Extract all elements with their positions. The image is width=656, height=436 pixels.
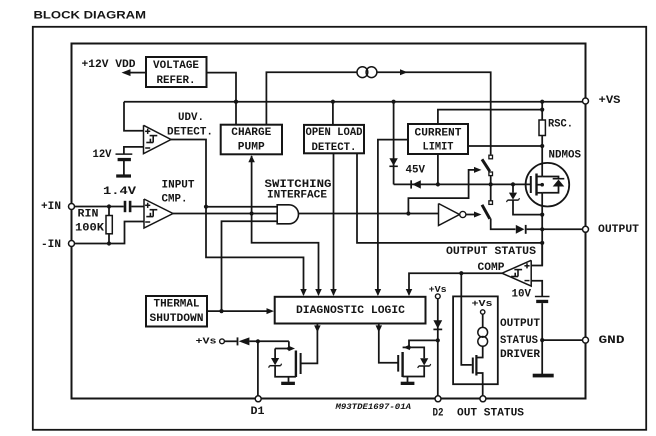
- svg-text:NDMOS: NDMOS: [549, 150, 582, 162]
- svg-text:VOLTAGE: VOLTAGE: [153, 60, 199, 72]
- svg-text:LIMIT: LIMIT: [423, 142, 455, 154]
- svg-text:D1: D1: [251, 406, 265, 418]
- svg-text:100K: 100K: [75, 223, 105, 235]
- svg-text:D2: D2: [433, 408, 444, 420]
- svg-text:CURRENT: CURRENT: [415, 128, 463, 140]
- svg-text:RSC.: RSC.: [548, 119, 573, 131]
- svg-text:OUTPUT: OUTPUT: [598, 224, 640, 236]
- svg-text:INTERFACE: INTERFACE: [267, 190, 327, 202]
- svg-text:CMP.: CMP.: [162, 194, 188, 206]
- svg-text:10V: 10V: [512, 288, 532, 300]
- svg-text:RIN: RIN: [78, 209, 99, 221]
- svg-text:+IN: +IN: [41, 201, 61, 213]
- svg-text:OUT STATUS: OUT STATUS: [457, 408, 525, 420]
- svg-text:+Vs: +Vs: [196, 336, 217, 347]
- svg-text:DETECT.: DETECT.: [312, 142, 357, 154]
- svg-text:M93TDE1697-01A: M93TDE1697-01A: [334, 403, 411, 412]
- svg-text:45V: 45V: [406, 164, 426, 176]
- svg-text:DRIVER: DRIVER: [500, 349, 541, 361]
- svg-text:OUTPUT STATUS: OUTPUT STATUS: [446, 246, 537, 258]
- svg-text:INPUT: INPUT: [162, 180, 196, 192]
- svg-text:+12V VDD: +12V VDD: [82, 59, 136, 71]
- svg-text:THERMAL: THERMAL: [154, 299, 200, 311]
- svg-text:DETECT.: DETECT.: [167, 127, 213, 139]
- svg-text:CHARGE: CHARGE: [231, 127, 271, 139]
- svg-text:UDV.: UDV.: [178, 112, 204, 124]
- svg-text:DIAGNOSTIC LOGIC: DIAGNOSTIC LOGIC: [296, 305, 406, 317]
- svg-text:+VS: +VS: [599, 95, 622, 107]
- svg-text:BLOCK DIAGRAM: BLOCK DIAGRAM: [34, 10, 147, 22]
- svg-text:12V: 12V: [93, 149, 113, 161]
- svg-text:COMP: COMP: [478, 262, 505, 274]
- svg-text:+Vs: +Vs: [472, 298, 493, 309]
- svg-text:OUTPUT: OUTPUT: [500, 318, 541, 330]
- svg-text:PUMP: PUMP: [238, 142, 265, 154]
- svg-text:-IN: -IN: [41, 239, 61, 251]
- svg-text:REFER.: REFER.: [157, 75, 196, 87]
- svg-text:OPEN LOAD: OPEN LOAD: [306, 127, 363, 139]
- svg-text:GND: GND: [599, 335, 625, 347]
- svg-text:STATUS: STATUS: [500, 335, 539, 347]
- svg-text:1.4V: 1.4V: [103, 186, 137, 198]
- svg-text:SHUTDOWN: SHUTDOWN: [150, 313, 204, 325]
